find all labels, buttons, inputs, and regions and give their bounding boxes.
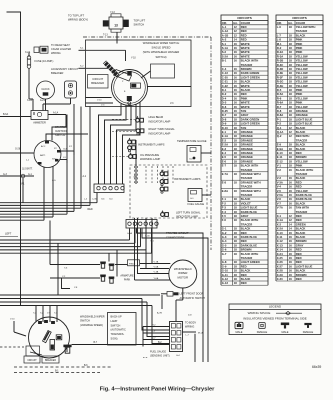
svg-text:TRACER: TRACER — [296, 172, 307, 176]
svg-text:V-3: V-3 — [277, 176, 282, 180]
svg-text:DARK BLUE: DARK BLUE — [296, 193, 312, 197]
svg-text:BLACK: BLACK — [296, 33, 306, 37]
svg-text:FUEL GAUGE: FUEL GAUGE — [150, 350, 166, 353]
svg-text:G-9: G-9 — [222, 264, 227, 268]
svg-text:C-13: C-13 — [222, 71, 228, 75]
svg-text:12: 12 — [289, 214, 293, 218]
svg-text:S-2: S-2 — [222, 50, 227, 54]
svg-text:14: 14 — [289, 222, 293, 226]
svg-text:BREAKER: BREAKER — [91, 81, 104, 85]
svg-text:X-26: X-26 — [277, 260, 283, 264]
svg-text:RED: RED — [296, 256, 302, 260]
svg-text:RED: RED — [296, 248, 302, 252]
svg-text:TEMPERATURE GAUGE: TEMPERATURE GAUGE — [177, 139, 207, 143]
svg-text:WIRING: WIRING — [51, 51, 61, 55]
svg-text:X-2A: X-2A — [25, 51, 31, 54]
svg-text:WHITE: WHITE — [241, 42, 250, 46]
svg-text:E-11: E-11 — [277, 155, 283, 159]
svg-text:L-7: L-7 — [277, 33, 282, 37]
svg-text:PINK: PINK — [296, 50, 303, 54]
svg-text:D-1: D-1 — [222, 88, 227, 92]
svg-text:YELLOW WITH: YELLOW WITH — [296, 25, 316, 29]
svg-text:STARTER: STARTER — [55, 125, 67, 129]
svg-text:COLOR: COLOR — [241, 21, 250, 25]
svg-text:V-2: V-2 — [277, 168, 282, 172]
svg-text:ORANGE: ORANGE — [296, 109, 308, 113]
svg-text:E-7A: E-7A — [222, 172, 228, 176]
svg-text:INSTRUMENT LAMPS: INSTRUMENT LAMPS — [138, 143, 165, 147]
svg-text:GRAY: GRAY — [241, 113, 249, 117]
svg-text:Fig. 4—Instrument Panel Wiring: Fig. 4—Instrument Panel Wiring—Chrysler — [100, 387, 215, 393]
svg-text:18: 18 — [289, 113, 293, 117]
svg-text:18: 18 — [289, 151, 293, 155]
svg-text:LIGHT GREEN: LIGHT GREEN — [241, 75, 260, 79]
svg-text:LIGHT BLUE: LIGHT BLUE — [296, 117, 313, 121]
svg-text:F-5: F-5 — [222, 214, 227, 218]
svg-text:16: 16 — [289, 260, 293, 264]
svg-text:TRACER: TRACER — [296, 138, 307, 142]
svg-text:ORANGE WITH: ORANGE WITH — [241, 189, 261, 193]
svg-text:18: 18 — [234, 201, 238, 205]
svg-text:WARNING LAMP: WARNING LAMP — [140, 157, 160, 161]
svg-text:16: 16 — [234, 92, 238, 96]
svg-text:TAN: TAN — [241, 109, 246, 113]
svg-text:R-2: R-2 — [277, 46, 282, 50]
svg-text:COLOR: COLOR — [296, 21, 305, 25]
svg-text:LIGHT BLUE: LIGHT BLUE — [241, 206, 258, 210]
svg-text:12: 12 — [289, 134, 293, 138]
svg-text:18: 18 — [289, 159, 293, 163]
svg-text:TRACER: TRACER — [296, 210, 307, 214]
svg-text:ORANGE: ORANGE — [241, 155, 253, 159]
svg-text:A-2: A-2 — [222, 38, 227, 42]
svg-text:G-12: G-12 — [222, 277, 229, 281]
svg-text:PINK: PINK — [296, 101, 303, 105]
svg-text:C-4: C-4 — [222, 67, 227, 71]
svg-text:R-6A: R-6A — [277, 101, 283, 105]
svg-text:F-3: F-3 — [222, 206, 227, 210]
svg-text:TAN WITH: TAN WITH — [296, 206, 309, 210]
svg-text:V-3A: V-3A — [277, 180, 283, 184]
svg-text:BATT.: BATT. — [40, 154, 46, 157]
svg-text:12: 12 — [289, 126, 293, 130]
svg-text:LEGEND: LEGEND — [269, 304, 282, 308]
svg-text:16: 16 — [289, 185, 293, 189]
svg-text:RED: RED — [241, 38, 247, 42]
svg-text:WINDSHIELD: WINDSHIELD — [174, 267, 192, 271]
svg-text:X-25: X-25 — [277, 256, 283, 260]
svg-text:18: 18 — [289, 33, 293, 37]
svg-text:E-8A: E-8A — [222, 189, 228, 193]
svg-text:DARK BLUE: DARK BLUE — [241, 235, 257, 239]
svg-text:WHITE: WHITE — [241, 46, 250, 50]
svg-text:VIOLET: VIOLET — [241, 201, 251, 205]
svg-text:A-21: A-21 — [40, 99, 46, 102]
svg-text:16: 16 — [234, 50, 238, 54]
svg-text:RED: RED — [296, 180, 302, 184]
svg-text:BLACK: BLACK — [296, 269, 306, 273]
svg-text:X-28: X-28 — [277, 269, 283, 273]
svg-text:TRACER: TRACER — [241, 256, 252, 260]
svg-text:E-6: E-6 — [222, 159, 227, 163]
svg-text:18: 18 — [234, 126, 238, 130]
svg-text:TAN: TAN — [241, 126, 246, 130]
svg-text:16: 16 — [234, 80, 238, 84]
svg-text:LIGHT BLUE: LIGHT BLUE — [296, 264, 313, 268]
svg-text:V-4: V-4 — [277, 185, 282, 189]
svg-text:MALE: MALE — [281, 330, 288, 334]
svg-text:18: 18 — [234, 147, 238, 151]
svg-text:YELLOW: YELLOW — [296, 105, 308, 109]
svg-text:E-2A: E-2A — [222, 143, 228, 147]
svg-text:ORANGE WITH: ORANGE WITH — [241, 172, 261, 176]
svg-text:S-1A: S-1A — [222, 46, 228, 50]
svg-text:18: 18 — [289, 101, 293, 105]
svg-text:SWITCH): SWITCH) — [155, 55, 166, 59]
svg-text:E-4: E-4 — [222, 151, 227, 155]
svg-text:R-3G: R-3G — [277, 80, 284, 84]
svg-text:RED: RED — [296, 252, 302, 256]
svg-text:X-30: X-30 — [277, 277, 283, 281]
svg-text:CIR.: CIR. — [277, 21, 282, 25]
svg-text:16: 16 — [289, 180, 293, 184]
svg-text:V-5: V-5 — [277, 189, 282, 193]
svg-text:CIRCUIT: CIRCUIT — [92, 77, 103, 81]
svg-text:14: 14 — [234, 38, 238, 42]
svg-text:16: 16 — [289, 243, 293, 247]
svg-text:18: 18 — [234, 231, 238, 235]
svg-text:16: 16 — [234, 96, 238, 100]
svg-text:16: 16 — [234, 59, 238, 63]
svg-text:R-8: R-8 — [277, 109, 282, 113]
svg-text:BLACK: BLACK — [296, 231, 306, 235]
svg-text:16: 16 — [289, 201, 293, 205]
svg-text:ORANGE: ORANGE — [296, 113, 308, 117]
svg-text:16: 16 — [289, 252, 293, 256]
svg-text:16: 16 — [234, 46, 238, 50]
svg-text:16: 16 — [289, 269, 293, 273]
svg-text:GREEN: GREEN — [296, 222, 306, 226]
svg-text:RED: RED — [296, 214, 302, 218]
svg-text:R-5: R-5 — [277, 88, 282, 92]
svg-text:BLACK: BLACK — [241, 277, 251, 281]
svg-text:PINK: PINK — [241, 96, 248, 100]
svg-text:66x39: 66x39 — [312, 365, 321, 369]
svg-text:13: 13 — [114, 23, 118, 27]
svg-text:16: 16 — [234, 42, 238, 46]
svg-text:(SENDING UNIT): (SENDING UNIT) — [150, 355, 170, 358]
svg-text:YELLOW: YELLOW — [296, 80, 308, 84]
svg-text:BACK-UP: BACK-UP — [111, 316, 122, 319]
svg-text:G-7: G-7 — [222, 252, 227, 256]
svg-text:WHITE: WHITE — [241, 105, 250, 109]
svg-text:E-9: E-9 — [277, 143, 282, 147]
svg-text:18: 18 — [289, 109, 293, 113]
svg-text:E-5: E-5 — [222, 155, 227, 159]
svg-text:G-2: G-2 — [222, 231, 227, 235]
svg-text:RED: RED — [241, 33, 247, 37]
svg-text:18: 18 — [234, 113, 238, 117]
svg-text:12: 12 — [289, 130, 293, 134]
svg-text:TO TOP LIFT: TO TOP LIFT — [68, 14, 84, 18]
svg-text:18: 18 — [289, 42, 293, 46]
svg-text:YELLOW: YELLOW — [296, 159, 308, 163]
svg-text:A-1A: A-1A — [222, 29, 228, 33]
svg-text:18: 18 — [289, 38, 293, 42]
svg-text:14: 14 — [289, 227, 293, 231]
svg-text:E-10: E-10 — [277, 151, 283, 155]
svg-text:CIRCUITS: CIRCUITS — [237, 16, 252, 20]
svg-text:(VARIABLE SPEED): (VARIABLE SPEED) — [80, 324, 103, 327]
svg-text:Q-2 BATT.: Q-2 BATT. — [22, 168, 33, 171]
svg-text:E-9A: E-9A — [277, 147, 283, 151]
svg-text:E-7: E-7 — [222, 164, 227, 168]
svg-text:18: 18 — [234, 218, 238, 222]
svg-text:R-3E: R-3E — [277, 71, 283, 75]
svg-text:INSULATORS VIEWED FROM TERM: INSULATORS VIEWED FROM TERMINAL SIDE — [243, 316, 307, 320]
svg-text:MOTOR: MOTOR — [178, 276, 189, 280]
svg-text:D-10: D-10 — [222, 126, 228, 130]
svg-text:G-3: G-3 — [222, 235, 227, 239]
svg-text:PARK: PARK — [124, 279, 131, 282]
svg-text:18: 18 — [234, 260, 238, 264]
svg-text:A-1: A-1 — [222, 25, 227, 29]
svg-text:RED: RED — [296, 218, 302, 222]
svg-text:BLACK WITH: BLACK WITH — [241, 164, 258, 168]
svg-text:GA.: GA. — [288, 21, 293, 25]
svg-text:G-6: G-6 — [222, 248, 227, 252]
svg-text:18: 18 — [234, 235, 238, 239]
svg-text:16: 16 — [234, 84, 238, 88]
svg-text:Q-2: Q-2 — [277, 134, 282, 138]
svg-text:ORANGE: ORANGE — [241, 151, 253, 155]
svg-text:WINDSHIELD WIPER SWITCH: WINDSHIELD WIPER SWITCH — [143, 41, 180, 45]
svg-text:AMMETER: AMMETER — [33, 122, 46, 125]
svg-text:FUEL GAUGE: FUEL GAUGE — [188, 202, 205, 206]
svg-text:X-11: X-11 — [277, 235, 283, 239]
svg-text:YELLOW: YELLOW — [296, 71, 308, 75]
svg-text:Y-6A: Y-6A — [154, 277, 159, 280]
svg-text:PINK: PINK — [296, 164, 303, 168]
svg-text:RED WITH: RED WITH — [296, 134, 310, 138]
svg-text:16: 16 — [289, 277, 293, 281]
svg-text:BLACK: BLACK — [241, 197, 251, 201]
svg-text:RED: RED — [241, 239, 247, 243]
svg-text:18: 18 — [289, 50, 293, 54]
svg-text:Y-10: Y-10 — [131, 58, 136, 60]
svg-text:X-12: X-12 — [277, 239, 283, 243]
svg-text:X-1: X-1 — [277, 214, 282, 218]
svg-text:BLACK WITH: BLACK WITH — [296, 168, 313, 172]
svg-text:M-1: M-1 — [277, 42, 282, 46]
svg-text:BROWN: BROWN — [296, 239, 307, 243]
svg-text:18: 18 — [234, 281, 238, 285]
svg-text:18: 18 — [289, 59, 293, 63]
svg-text:R-3F: R-3F — [277, 75, 283, 79]
svg-text:INDICATOR LAMP: INDICATOR LAMP — [176, 215, 198, 219]
svg-text:R-3B: R-3B — [277, 59, 283, 63]
svg-text:BLACK: BLACK — [296, 201, 306, 205]
svg-text:18: 18 — [289, 80, 293, 84]
svg-text:DARK BLUE: DARK BLUE — [241, 210, 257, 214]
svg-text:18: 18 — [289, 67, 293, 71]
svg-text:WIRING SPLICE: WIRING SPLICE — [248, 311, 271, 315]
svg-text:RED: RED — [241, 264, 247, 268]
svg-text:TRACER: TRACER — [241, 222, 252, 226]
svg-text:16: 16 — [234, 105, 238, 109]
svg-text:Y-13: Y-13 — [110, 12, 115, 14]
svg-text:18: 18 — [234, 134, 238, 138]
svg-text:AUTOMATIC SWITCH: AUTOMATIC SWITCH — [180, 296, 206, 300]
svg-text:OIL PRESSURE: OIL PRESSURE — [140, 153, 159, 157]
svg-text:PINK: PINK — [296, 46, 303, 50]
svg-text:18: 18 — [234, 189, 238, 193]
svg-text:WHITE: WHITE — [241, 101, 250, 105]
svg-text:YELLOW: YELLOW — [296, 54, 308, 58]
svg-text:E-8: E-8 — [222, 180, 227, 184]
svg-text:TRACER: TRACER — [296, 29, 307, 33]
svg-text:P-2: P-2 — [277, 122, 282, 126]
svg-text:V-7: V-7 — [277, 201, 282, 205]
svg-text:18: 18 — [289, 92, 293, 96]
svg-text:CONNECTORS: CONNECTORS — [166, 235, 185, 239]
svg-text:18: 18 — [234, 214, 238, 218]
svg-text:R-3H: R-3H — [277, 84, 283, 88]
svg-text:M-1A: M-1A — [198, 332, 204, 335]
svg-text:18: 18 — [289, 46, 293, 50]
svg-text:X-29: X-29 — [277, 273, 283, 277]
svg-text:BLACK: BLACK — [241, 269, 251, 273]
svg-text:ST.: ST. — [69, 146, 73, 148]
svg-text:R-3D: R-3D — [277, 67, 283, 71]
svg-text:TRACER: TRACER — [241, 176, 252, 180]
svg-text:PINK: PINK — [296, 92, 303, 96]
svg-text:YELLOW: YELLOW — [296, 96, 308, 100]
svg-text:X-13: X-13 — [277, 243, 283, 247]
svg-text:ORANGE: ORANGE — [241, 138, 253, 142]
svg-text:Q-1A: Q-1A — [277, 130, 284, 134]
svg-text:16: 16 — [289, 193, 293, 197]
svg-text:PINK: PINK — [296, 38, 303, 42]
svg-text:(AUTOMATIC: (AUTOMATIC — [111, 329, 127, 332]
svg-text:WHITE: WHITE — [241, 84, 250, 88]
svg-text:12: 12 — [234, 29, 238, 33]
svg-text:RED: RED — [241, 25, 247, 29]
svg-text:18: 18 — [234, 269, 238, 273]
svg-text:R-3C: R-3C — [277, 63, 283, 67]
svg-text:D-2: D-2 — [222, 92, 227, 96]
svg-text:18: 18 — [289, 122, 293, 126]
svg-text:BLACK: BLACK — [296, 147, 306, 151]
svg-text:S-1: S-1 — [222, 42, 227, 46]
svg-text:18: 18 — [234, 143, 238, 147]
svg-text:TO BODY: TO BODY — [185, 322, 197, 325]
svg-text:CIR.: CIR. — [222, 21, 227, 25]
svg-text:BROWN: BROWN — [296, 155, 307, 159]
svg-text:YELLOW: YELLOW — [296, 67, 308, 71]
svg-text:WHITE: WHITE — [241, 50, 250, 54]
svg-text:D-7: D-7 — [222, 113, 227, 117]
svg-text:ACCESSORY CIRCUIT: ACCESSORY CIRCUIT — [51, 67, 79, 71]
svg-text:LIGHT GREEN: LIGHT GREEN — [241, 260, 260, 264]
svg-text:YELLOW: YELLOW — [296, 84, 308, 88]
svg-text:ORANGE: ORANGE — [241, 159, 253, 163]
svg-text:LEFT TURN SIGNAL: LEFT TURN SIGNAL — [176, 210, 201, 214]
svg-text:ORANGE WITH: ORANGE WITH — [241, 180, 261, 184]
svg-text:FEMALE: FEMALE — [257, 330, 268, 334]
svg-text:LIGHT BLUE: LIGHT BLUE — [296, 122, 313, 126]
svg-text:V-10: V-10 — [10, 319, 15, 321]
svg-text:18: 18 — [234, 248, 238, 252]
svg-text:16: 16 — [289, 256, 293, 260]
svg-text:18: 18 — [289, 88, 293, 92]
svg-text:16: 16 — [289, 197, 293, 201]
svg-text:G-11: G-11 — [222, 273, 228, 277]
svg-text:16: 16 — [289, 206, 293, 210]
svg-text:RED: RED — [296, 151, 302, 155]
svg-text:V-5A: V-5A — [277, 193, 283, 197]
svg-text:ST.: ST. — [54, 148, 57, 150]
svg-text:18: 18 — [234, 243, 238, 247]
svg-text:ORANGE: ORANGE — [241, 147, 253, 151]
svg-text:A-7B: A-7B — [157, 312, 162, 315]
svg-text:18: 18 — [234, 277, 238, 281]
svg-text:16: 16 — [289, 273, 293, 277]
svg-text:18: 18 — [234, 264, 238, 268]
svg-text:WINDSHIELD WIPER: WINDSHIELD WIPER — [80, 316, 105, 319]
svg-text:18: 18 — [234, 122, 238, 126]
svg-text:RED: RED — [241, 29, 247, 33]
svg-text:TRANSMIS-: TRANSMIS- — [111, 333, 125, 336]
svg-text:16: 16 — [289, 189, 293, 193]
svg-text:16: 16 — [234, 54, 238, 58]
svg-text:R-8A: R-8A — [277, 113, 283, 117]
svg-text:16: 16 — [289, 168, 293, 172]
svg-text:BROWN: BROWN — [241, 67, 252, 71]
svg-text:SWITCH: SWITCH — [80, 320, 90, 323]
svg-text:YELLOW: YELLOW — [296, 189, 308, 193]
svg-text:DARK BLUE: DARK BLUE — [296, 197, 312, 201]
svg-text:12: 12 — [234, 25, 238, 29]
svg-text:16: 16 — [289, 248, 293, 252]
svg-text:B-1: B-1 — [222, 59, 227, 63]
svg-text:ORANGE: ORANGE — [241, 143, 253, 147]
svg-text:TRACER: TRACER — [241, 185, 252, 189]
svg-text:F-6: F-6 — [222, 218, 227, 222]
svg-text:X-27: X-27 — [277, 264, 283, 268]
svg-text:P-1: P-1 — [277, 117, 282, 121]
svg-text:MALE: MALE — [235, 330, 242, 334]
svg-text:ARMATURE: ARMATURE — [120, 275, 134, 278]
svg-text:BLACK WITH: BLACK WITH — [241, 252, 258, 256]
svg-text:16: 16 — [289, 176, 293, 180]
svg-text:TOP LIFT: TOP LIFT — [134, 19, 146, 23]
svg-text:F-1: F-1 — [222, 197, 227, 201]
svg-text:RED: RED — [88, 208, 93, 211]
svg-text:18: 18 — [289, 75, 293, 79]
svg-text:V-10: V-10 — [97, 100, 102, 102]
svg-text:SWITCH: SWITCH — [111, 324, 121, 327]
svg-text:18: 18 — [234, 180, 238, 184]
svg-text:18: 18 — [289, 117, 293, 121]
svg-text:A-1B: A-1B — [222, 33, 228, 37]
svg-text:18: 18 — [234, 197, 238, 201]
svg-text:18: 18 — [289, 143, 293, 147]
svg-text:D-8: D-8 — [222, 117, 227, 121]
svg-text:16: 16 — [234, 109, 238, 113]
svg-text:R-3A: R-3A — [277, 54, 283, 58]
svg-text:D-6: D-6 — [222, 105, 227, 109]
